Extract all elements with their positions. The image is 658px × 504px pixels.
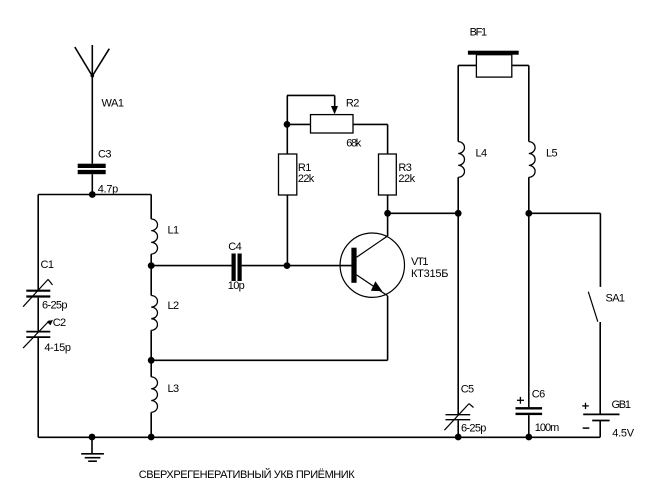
svg-text:WA1: WA1 [102,97,125,109]
svg-text:SA1: SA1 [606,292,626,304]
svg-text:L1: L1 [168,224,180,236]
svg-text:L4: L4 [476,147,488,159]
svg-text:R2: R2 [346,98,359,110]
svg-text:КТ315Б: КТ315Б [411,268,449,280]
svg-text:6-25p: 6-25p [461,423,486,435]
svg-text:C4: C4 [228,241,241,253]
svg-text:100m: 100m [535,422,560,434]
svg-text:L5: L5 [546,147,558,159]
svg-text:L2: L2 [168,300,180,312]
svg-text:C2: C2 [53,317,66,329]
svg-text:BF1: BF1 [470,26,488,38]
svg-text:6-25p: 6-25p [42,299,68,311]
svg-text:68k: 68k [346,138,362,150]
svg-text:22k: 22k [298,173,315,185]
svg-text:C6: C6 [532,389,545,401]
svg-text:GB1: GB1 [612,399,632,411]
svg-text:4.7p: 4.7p [98,184,119,196]
svg-text:10p: 10p [228,280,245,292]
svg-text:C3: C3 [98,149,111,161]
svg-text:СВЕРХРЕГЕНЕРАТИВНЫЙ УКВ ПРИЁМН: СВЕРХРЕГЕНЕРАТИВНЫЙ УКВ ПРИЁМНИК [139,468,356,481]
svg-text:C5: C5 [461,384,474,396]
svg-text:4.5V: 4.5V [612,428,635,440]
svg-text:C1: C1 [41,259,54,271]
svg-text:4-15p: 4-15p [44,342,71,354]
svg-text:VT1: VT1 [411,256,429,268]
svg-text:L3: L3 [168,383,180,395]
svg-text:22k: 22k [398,173,415,185]
